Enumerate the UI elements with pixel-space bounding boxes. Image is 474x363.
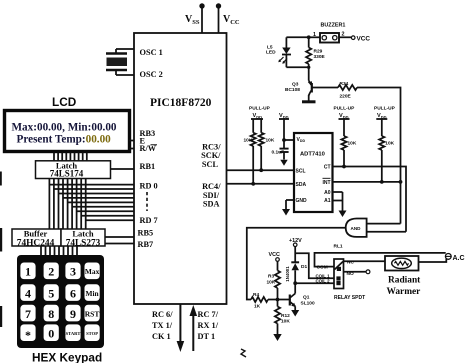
svg-text:GND: GND bbox=[296, 198, 308, 204]
node Q1 base bbox=[276, 298, 280, 302]
svg-text:10K: 10K bbox=[244, 138, 253, 144]
svg-text:HEX Keypad: HEX Keypad bbox=[32, 351, 102, 363]
radiant warmer heater bbox=[385, 256, 421, 297]
svg-text:BC108: BC108 bbox=[285, 87, 300, 93]
svg-text:BUZZER1: BUZZER1 bbox=[321, 23, 346, 29]
svg-text:D1: D1 bbox=[301, 264, 307, 270]
resistor R3 10K bbox=[267, 261, 281, 299]
hex keypad bbox=[17, 255, 104, 348]
ground Q3 emitter bbox=[302, 100, 316, 103]
svg-text:LCD: LCD bbox=[52, 95, 77, 109]
svg-text:RC 7/: RC 7/ bbox=[198, 310, 219, 319]
relay RL1 bbox=[334, 244, 366, 302]
wire +12V to relay coil 1 bbox=[295, 253, 334, 278]
wire relay NO stub bbox=[344, 270, 370, 277]
svg-text:STOP: STOP bbox=[86, 331, 98, 336]
svg-text:R12: R12 bbox=[281, 313, 290, 319]
wire RB1 to latch bbox=[111, 168, 135, 170]
svg-text:6: 6 bbox=[70, 286, 76, 300]
resistor R29 330E bbox=[306, 37, 325, 69]
svg-text:START: START bbox=[66, 331, 81, 336]
svg-text:R29: R29 bbox=[314, 49, 323, 55]
resistor R34 220E bbox=[338, 81, 357, 100]
pull-up resistors R1 R2 bbox=[244, 106, 275, 186]
VDD supply and decoupling capacitor 0.1uF bbox=[272, 113, 295, 166]
svg-text:Buffer: Buffer bbox=[24, 228, 48, 238]
svg-text:A1: A1 bbox=[324, 198, 331, 204]
transistor Q3 BC108 bbox=[285, 67, 338, 100]
svg-text:PULL-UP: PULL-UP bbox=[374, 106, 396, 112]
svg-text:AND: AND bbox=[351, 226, 362, 231]
svg-text:*: * bbox=[25, 328, 31, 342]
svg-text:1K: 1K bbox=[254, 304, 261, 310]
latch U2 74LS174 bbox=[36, 161, 111, 179]
svg-text:10K: 10K bbox=[266, 138, 275, 144]
buffer U3 74HC244 bbox=[12, 228, 61, 248]
pull-up resistor R6 on INT bbox=[374, 106, 396, 182]
svg-text:Latch: Latch bbox=[72, 228, 94, 238]
node buzzer/LED/R29 bbox=[286, 35, 310, 39]
svg-text:PIC18F8720: PIC18F8720 bbox=[150, 97, 212, 109]
svg-text:RC 6/: RC 6/ bbox=[152, 310, 173, 319]
A0 A1 tied to ground bbox=[333, 192, 347, 217]
svg-text:SL100: SL100 bbox=[301, 301, 315, 307]
svg-text:5: 5 bbox=[48, 286, 54, 300]
svg-text:SDA: SDA bbox=[203, 200, 220, 209]
wire SDA bbox=[227, 183, 295, 185]
Vss power pin bbox=[185, 3, 205, 33]
svg-text:74LS174: 74LS174 bbox=[50, 168, 84, 178]
svg-text:COM: COM bbox=[317, 265, 328, 271]
svg-text:Max: Max bbox=[85, 267, 100, 276]
svg-text:Radiant: Radiant bbox=[388, 276, 421, 286]
wire relay NC to heater bbox=[344, 259, 386, 265]
AC terminal bbox=[445, 254, 464, 263]
wire RB5 bbox=[105, 236, 134, 238]
LCD module bbox=[5, 111, 130, 152]
svg-text:RX 1/: RX 1/ bbox=[198, 321, 219, 330]
diode D1 1N4001 bbox=[285, 262, 307, 293]
svg-text:2: 2 bbox=[48, 265, 54, 279]
wire SCL bbox=[227, 169, 295, 171]
wire R/W bbox=[129, 148, 134, 150]
svg-text:TX 1/: TX 1/ bbox=[152, 321, 173, 330]
svg-text:220E: 220E bbox=[340, 94, 352, 100]
svg-text:Q1: Q1 bbox=[303, 295, 310, 301]
svg-text:74LS273: 74LS273 bbox=[66, 238, 101, 248]
svg-text:CK 1: CK 1 bbox=[152, 332, 171, 341]
svg-text:ADT7410: ADT7410 bbox=[300, 152, 325, 158]
svg-text:2: 2 bbox=[342, 31, 345, 37]
Vcc power pin bbox=[216, 3, 240, 33]
wire RB7 bbox=[105, 243, 134, 245]
svg-text:VCC: VCC bbox=[357, 35, 371, 42]
AND gate (mirrored, inputs right) bbox=[346, 219, 367, 237]
RX input arrow bbox=[190, 305, 198, 351]
keypad bus stubs bbox=[41, 246, 77, 256]
LED L5 bbox=[266, 37, 309, 67]
TX output arrow bbox=[177, 304, 185, 352]
svg-text:0: 0 bbox=[48, 326, 54, 340]
svg-text:A.C: A.C bbox=[453, 255, 465, 262]
wire AND input from INT bbox=[367, 223, 401, 225]
svg-text:RC4/: RC4/ bbox=[202, 182, 221, 191]
svg-text:RB5: RB5 bbox=[138, 229, 154, 238]
crystal oscillator X1 bbox=[106, 49, 134, 75]
svg-text:4: 4 bbox=[25, 286, 31, 300]
svg-text:NC: NC bbox=[347, 259, 354, 265]
svg-text:SDI/: SDI/ bbox=[203, 191, 220, 200]
wire E bbox=[129, 140, 134, 142]
svg-text:VCC: VCC bbox=[269, 252, 280, 258]
svg-text:A0: A0 bbox=[324, 190, 331, 196]
svg-text:SDA: SDA bbox=[296, 182, 307, 188]
LCD data bus stubs bbox=[54, 153, 87, 161]
svg-text:RELAY SPDT: RELAY SPDT bbox=[334, 295, 365, 301]
svg-text:SCL: SCL bbox=[296, 168, 306, 174]
svg-text:CT: CT bbox=[324, 165, 331, 171]
svg-text:PULL-UP: PULL-UP bbox=[249, 106, 271, 112]
stray scan marks at left edge bbox=[0, 172, 246, 358]
svg-text:Min: Min bbox=[86, 289, 99, 298]
wire CT bbox=[333, 165, 407, 232]
svg-text:10K: 10K bbox=[385, 141, 394, 147]
svg-text:OSC 1: OSC 1 bbox=[140, 48, 163, 57]
svg-text:RC3/: RC3/ bbox=[202, 142, 221, 151]
latch U4 74LS273 bbox=[61, 228, 105, 248]
svg-text:3: 3 bbox=[70, 265, 76, 279]
PIC right pin labels bbox=[201, 142, 221, 208]
svg-text:RST: RST bbox=[85, 310, 100, 319]
VCC terminal above R3 bbox=[269, 252, 280, 261]
wire Q1 collector to relay coil 2 bbox=[295, 282, 334, 284]
wire R34 to INT net bbox=[357, 88, 401, 224]
wire INT bbox=[333, 180, 403, 184]
svg-text:INT: INT bbox=[322, 180, 330, 186]
svg-text:74HC244: 74HC244 bbox=[17, 238, 55, 248]
svg-text:1N4001: 1N4001 bbox=[285, 266, 290, 282]
svg-text:RD 7: RD 7 bbox=[140, 216, 158, 225]
resistor R12 10K bbox=[275, 300, 290, 335]
wire AND output to driver bbox=[247, 228, 346, 300]
data bus RD0-RD7 staircase bbox=[49, 179, 134, 230]
svg-text:7: 7 bbox=[25, 307, 31, 321]
VCC terminal at buzzer bbox=[351, 35, 370, 42]
svg-text:R/W: R/W bbox=[140, 144, 157, 153]
svg-text:SCK/: SCK/ bbox=[201, 151, 221, 160]
svg-text:Warmer: Warmer bbox=[387, 287, 421, 297]
svg-text:10K: 10K bbox=[267, 280, 276, 286]
svg-text:0.1uF: 0.1uF bbox=[272, 150, 285, 156]
svg-text:RL1: RL1 bbox=[334, 244, 343, 250]
+12V terminal bbox=[289, 238, 302, 262]
svg-text:9: 9 bbox=[70, 307, 76, 321]
microcontroller U1 PIC18F8720 bbox=[134, 33, 227, 304]
PIC left pin labels bbox=[138, 48, 163, 249]
resistor R4 1K bbox=[251, 292, 278, 310]
ground Q1 emitter bbox=[291, 310, 299, 317]
temperature sensor U5 ADT7410 bbox=[294, 133, 333, 212]
svg-text:SCL: SCL bbox=[202, 160, 219, 169]
svg-text:10K: 10K bbox=[281, 319, 290, 325]
svg-text:10K: 10K bbox=[348, 141, 357, 147]
ground R12 bbox=[273, 334, 281, 341]
coil labels bbox=[316, 273, 331, 283]
transistor Q1 SL100 bbox=[278, 294, 315, 311]
svg-text:NO: NO bbox=[347, 271, 354, 277]
svg-text:RB1: RB1 bbox=[140, 162, 156, 171]
svg-text:330E: 330E bbox=[314, 54, 326, 60]
svg-text:1: 1 bbox=[25, 265, 31, 279]
svg-text:LED: LED bbox=[266, 50, 276, 56]
wire heater to AC bbox=[419, 259, 447, 263]
svg-text:8: 8 bbox=[48, 307, 54, 321]
svg-text:Q3: Q3 bbox=[292, 82, 299, 88]
wire AND input from CT bbox=[367, 231, 406, 233]
svg-text:PULL-UP: PULL-UP bbox=[334, 106, 356, 112]
svg-text:OSC 2: OSC 2 bbox=[140, 70, 163, 79]
pull-up resistor R5 on CT bbox=[334, 106, 357, 167]
svg-text:Max:00.00, Min:00.00: Max:00.00, Min:00.00 bbox=[12, 122, 117, 134]
svg-text:DT 1: DT 1 bbox=[198, 332, 216, 341]
svg-text:Present Temp:00.00: Present Temp:00.00 bbox=[17, 134, 112, 146]
svg-text:RD 0: RD 0 bbox=[140, 182, 158, 191]
ground ADT7410 GND pin bbox=[282, 200, 294, 216]
buzzer BUZZER1 bbox=[310, 23, 352, 43]
wire relay COM to AC line bbox=[315, 253, 446, 271]
svg-text:COIL 2: COIL 2 bbox=[316, 278, 331, 283]
PIC bottom pin labels bbox=[152, 310, 219, 341]
svg-text:RB7: RB7 bbox=[138, 240, 154, 249]
svg-text:1: 1 bbox=[313, 32, 316, 38]
svg-text:R3: R3 bbox=[268, 274, 274, 280]
